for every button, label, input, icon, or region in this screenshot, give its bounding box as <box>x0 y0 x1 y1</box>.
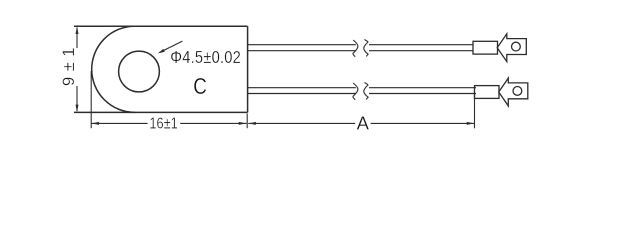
bottom wire lower line, right segment <box>369 93 476 95</box>
bottom wire upper line, right segment <box>369 87 476 89</box>
top terminal crimp barrel <box>473 41 498 54</box>
dimension 16±1: dimension line segments <box>91 122 147 124</box>
bottom terminal hole <box>513 87 522 96</box>
A left arrowhead <box>248 122 256 125</box>
svg-text:A: A <box>357 112 370 133</box>
9±1 down arrowhead <box>76 105 79 113</box>
dimension 16±1: right extension line (shared with A) <box>246 114 248 129</box>
dimension A: dimension line segments <box>248 122 355 124</box>
body left semicircular end <box>92 26 135 112</box>
bottom wire break mark right <box>364 83 368 100</box>
bottom wire lower line, left segment <box>248 93 357 95</box>
top terminal arrow + tab outline <box>497 34 526 62</box>
top wire break mark right <box>364 40 368 57</box>
body bottom edge with left extension line <box>74 111 248 113</box>
bottom wire upper line, left segment <box>248 87 356 89</box>
16±1 right arrowhead <box>239 122 247 125</box>
top wire upper line, right segment <box>369 44 473 46</box>
svg-text:C: C <box>193 74 207 99</box>
svg-text:9±1: 9±1 <box>60 42 78 86</box>
top wire lower line, right segment <box>369 50 473 52</box>
top wire (lead) upper line, left segment <box>248 44 356 46</box>
bottom terminal arrow + tab outline <box>499 78 528 106</box>
svg-text:16±1: 16±1 <box>149 115 177 133</box>
dimension 9±1: vertical dimension line (two segments) <box>76 28 78 49</box>
dimension 16±1: left extension line <box>90 71 92 128</box>
bottom wire break mark left <box>353 83 358 100</box>
svg-text:Φ4.5±0.02: Φ4.5±0.02 <box>170 48 241 67</box>
dimension A: right extension line <box>474 94 476 129</box>
hole circle <box>119 51 160 92</box>
body top edge with left extension line <box>74 25 248 27</box>
leader line to hole <box>160 41 183 52</box>
9±1 up arrowhead <box>76 26 79 34</box>
A right arrowhead <box>467 122 475 125</box>
top terminal hole <box>512 42 521 51</box>
bottom terminal crimp barrel <box>475 86 500 99</box>
leader arrowhead <box>158 49 165 54</box>
top wire break mark left <box>353 40 358 57</box>
body right edge <box>247 26 249 112</box>
top wire lower line, left segment <box>248 50 357 52</box>
16±1 left arrowhead <box>91 122 99 125</box>
